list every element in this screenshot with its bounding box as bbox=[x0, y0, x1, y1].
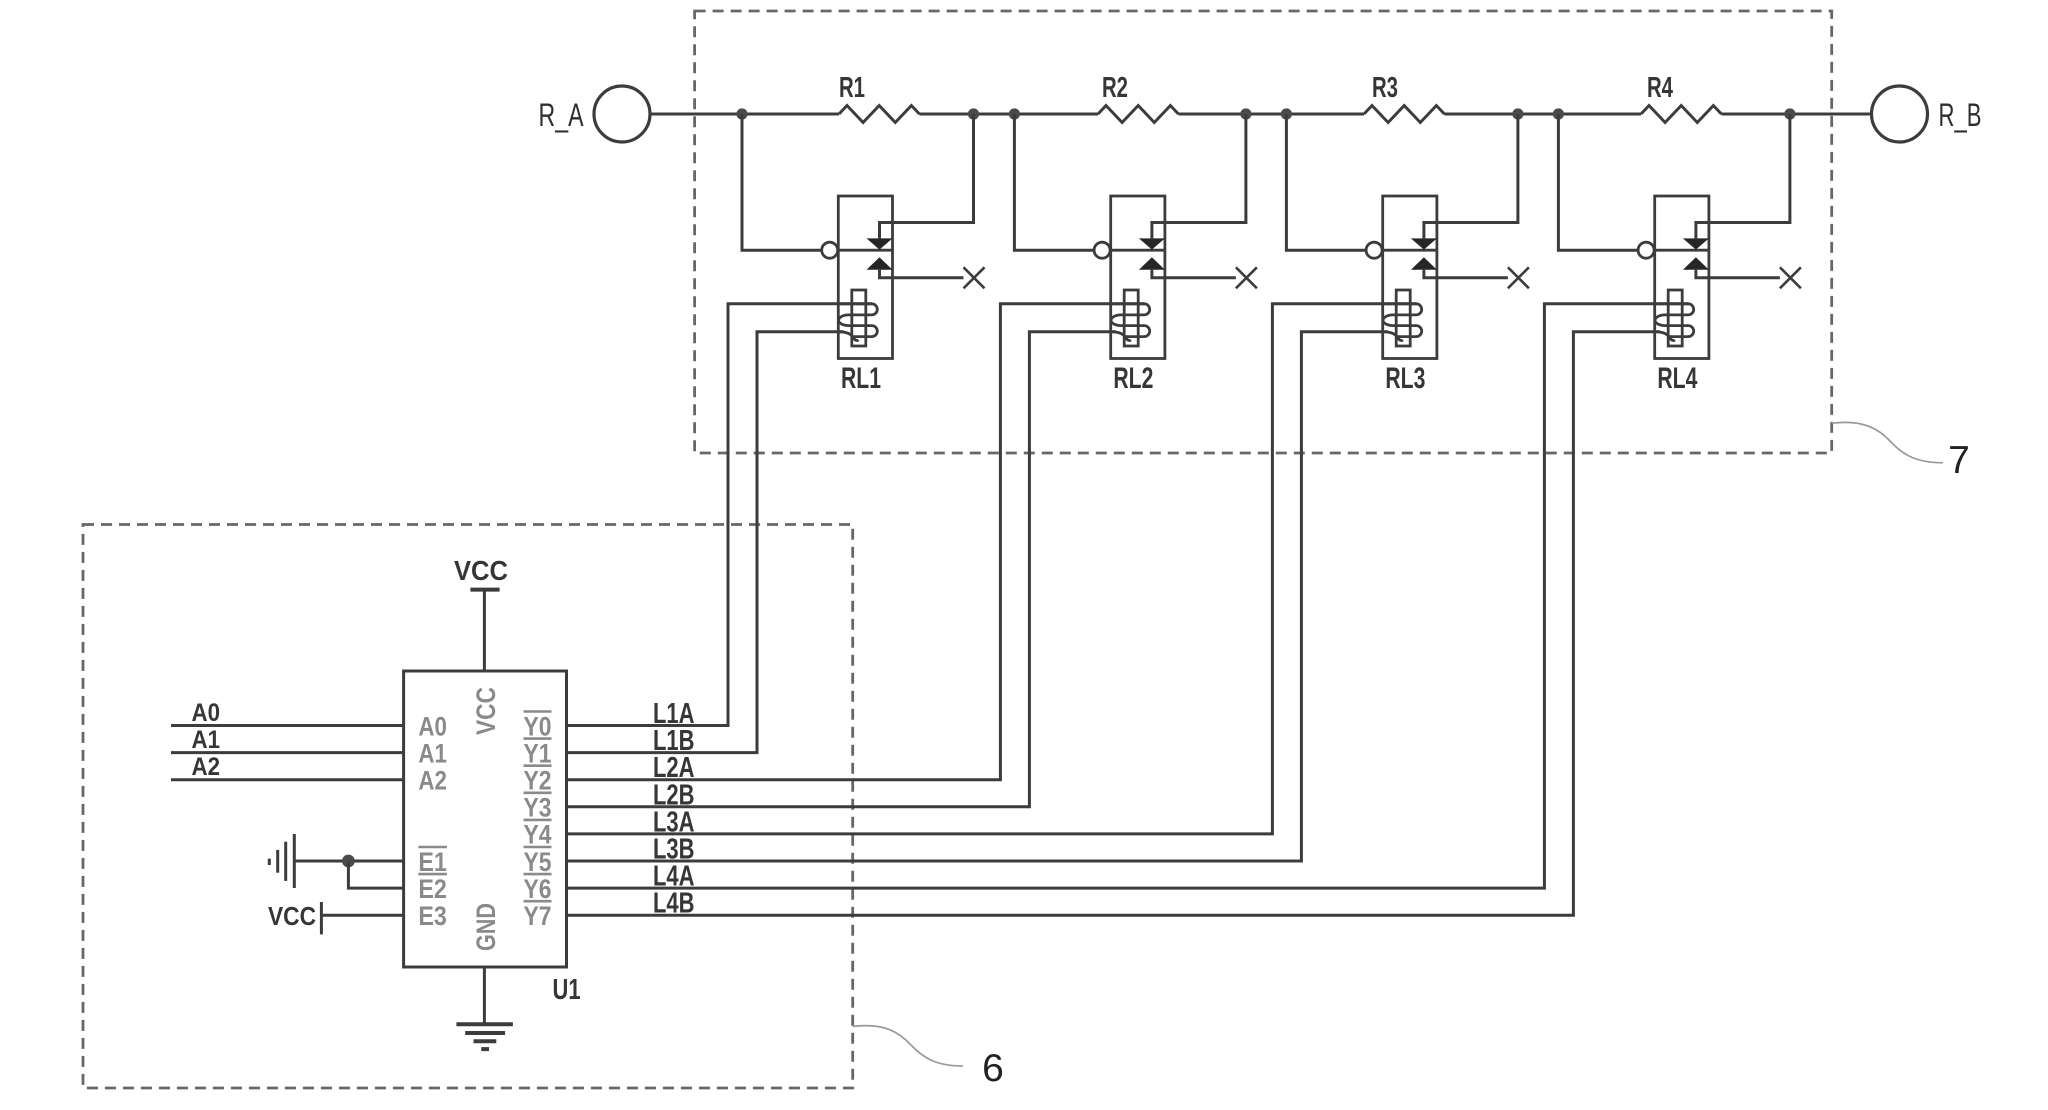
label RL1 bbox=[841, 362, 881, 395]
wire: rail to common contact of RL2 bbox=[1014, 114, 1094, 250]
svg-text:6: 6 bbox=[982, 1047, 1004, 1090]
svg-text:7: 7 bbox=[1948, 439, 1970, 482]
svg-text:R3: R3 bbox=[1372, 72, 1398, 104]
svg-text:R1: R1 bbox=[839, 72, 865, 104]
U1 pin label VCC (rotated) bbox=[471, 687, 501, 735]
coil winding A of RL2 bbox=[1111, 304, 1150, 337]
node: rail junction left of R3 (common of RL3) bbox=[1281, 108, 1292, 119]
NO contact arrow (up) of RL3 bbox=[1411, 257, 1437, 269]
no-connect X of RL2 bbox=[1236, 267, 1257, 288]
label R_A bbox=[539, 97, 584, 133]
svg-text:A0: A0 bbox=[418, 711, 447, 741]
wire: net L1B from U1 Y1 to coil of RL1 bbox=[567, 332, 844, 753]
svg-text:Y1: Y1 bbox=[524, 738, 552, 768]
node: E1/E2 junction bbox=[342, 855, 355, 868]
label RL2 bbox=[1113, 362, 1153, 395]
U1 pin label Y7 (active low) bbox=[524, 901, 552, 931]
relay RL4 body bbox=[1655, 196, 1709, 359]
NC contact arrow (down) of RL1 bbox=[867, 238, 893, 249]
svg-text:Y6: Y6 bbox=[524, 874, 552, 904]
label net L2A bbox=[653, 752, 695, 784]
svg-text:VCC: VCC bbox=[471, 687, 501, 735]
label 7 leader line bbox=[1832, 422, 1943, 462]
U1 pin label A1 bbox=[418, 738, 447, 768]
U1 pin label Y6 (active low) bbox=[524, 874, 552, 904]
svg-text:R_A: R_A bbox=[539, 97, 584, 133]
label net L3B bbox=[653, 834, 695, 866]
svg-text:A1: A1 bbox=[418, 738, 447, 768]
resistor R3 bbox=[1364, 72, 1444, 123]
node: rail junction right of R3 (NC of RL3) bbox=[1512, 108, 1523, 119]
label net L2B bbox=[653, 779, 695, 811]
coil winding A of RL1 bbox=[838, 304, 877, 337]
svg-text:R2: R2 bbox=[1102, 72, 1128, 104]
coil core of RL3 bbox=[1396, 290, 1410, 346]
wire: NO contact of RL2 to no-connect bbox=[1152, 270, 1236, 278]
label RL3 bbox=[1385, 362, 1425, 395]
svg-text:Y2: Y2 bbox=[524, 766, 552, 796]
no-connect X of RL4 bbox=[1780, 267, 1801, 288]
wire: net L4B from U1 Y7 to coil of RL4 bbox=[567, 332, 1660, 915]
coil winding B of RL2 bbox=[1111, 332, 1131, 341]
wire: net L4A from U1 Y6 to coil of RL4 bbox=[567, 304, 1689, 888]
common contact pole circle of RL1 bbox=[822, 242, 838, 258]
svg-text:R4: R4 bbox=[1647, 72, 1673, 104]
label net L1B bbox=[653, 725, 695, 757]
signal ground symbol at E1 bbox=[269, 834, 294, 888]
NO contact arrow (up) of RL1 bbox=[867, 257, 893, 269]
resistor R4 bbox=[1641, 72, 1721, 123]
wire: NO contact of RL4 to no-connect bbox=[1696, 270, 1780, 278]
resistor R2 bbox=[1098, 72, 1178, 123]
wire: common line inside RL3 bbox=[1382, 249, 1437, 252]
svg-text:A2: A2 bbox=[418, 766, 447, 796]
svg-text:L4B: L4B bbox=[653, 888, 695, 920]
U1 pin label A0 bbox=[418, 711, 447, 741]
node: rail junction right of R1 (NC of RL1) bbox=[968, 108, 979, 119]
svg-text:Y7: Y7 bbox=[524, 901, 552, 931]
svg-text:GND: GND bbox=[471, 903, 501, 951]
node: rail junction right of R2 (NC of RL2) bbox=[1240, 108, 1251, 119]
wire: ground to E1 bbox=[294, 860, 403, 863]
wire: input A2 bbox=[171, 778, 404, 781]
VCC power symbol above U1 bbox=[454, 555, 508, 671]
wire: NC contact of RL1 to rail bbox=[880, 114, 974, 238]
ground symbol below U1 bbox=[456, 967, 513, 1049]
coil winding B of RL1 bbox=[838, 332, 858, 341]
svg-text:E2: E2 bbox=[418, 874, 447, 904]
svg-text:VCC: VCC bbox=[268, 901, 316, 931]
coil winding B of RL4 bbox=[1655, 332, 1675, 341]
U1 pin label GND (rotated) bbox=[471, 903, 501, 951]
label input A2 bbox=[192, 753, 221, 781]
relay RL2 body bbox=[1111, 196, 1165, 359]
wire: net L3B from U1 Y5 to coil of RL3 bbox=[567, 332, 1388, 861]
wire: rail to common contact of RL3 bbox=[1286, 114, 1366, 250]
U1 pin label E3 bbox=[418, 901, 447, 931]
coil winding B of RL3 bbox=[1383, 332, 1403, 341]
label input A0 bbox=[192, 699, 221, 727]
label net L1A bbox=[653, 698, 695, 730]
svg-text:A1: A1 bbox=[192, 726, 221, 754]
dashed box 6 (decoder block) bbox=[83, 525, 853, 1089]
node: rail junction left of R2 (common of RL2) bbox=[1009, 108, 1020, 119]
wire: rail to common contact of RL4 bbox=[1558, 114, 1638, 250]
svg-text:E1: E1 bbox=[418, 847, 447, 877]
node: rail junction left of R4 (common of RL4) bbox=[1553, 108, 1564, 119]
coil core of RL1 bbox=[852, 290, 866, 346]
node: rail junction right of R4 (NC of RL4) bbox=[1784, 108, 1795, 119]
wire: input A0 bbox=[171, 724, 404, 727]
NO contact arrow (up) of RL2 bbox=[1139, 257, 1165, 269]
node: rail junction left of R1 (common of RL1) bbox=[736, 108, 747, 119]
svg-text:A2: A2 bbox=[192, 753, 221, 781]
svg-text:E3: E3 bbox=[418, 901, 447, 931]
wire: R1 to R2 bbox=[919, 113, 1098, 116]
wire: junction to E2 bbox=[348, 861, 403, 888]
svg-text:R_B: R_B bbox=[1939, 97, 1982, 133]
wire: NC contact of RL4 to rail bbox=[1696, 114, 1790, 238]
NO contact arrow (up) of RL4 bbox=[1683, 257, 1709, 269]
U1 pin label Y1 (active low) bbox=[524, 738, 552, 768]
svg-text:RL2: RL2 bbox=[1113, 362, 1153, 395]
svg-text:U1: U1 bbox=[553, 974, 581, 1006]
terminal R_B bbox=[1872, 86, 1928, 142]
op IC U1 body (3-to-8 line decoder) bbox=[404, 671, 567, 967]
no-connect X of RL1 bbox=[964, 267, 985, 288]
label R_B bbox=[1939, 97, 1982, 133]
coil core of RL4 bbox=[1668, 290, 1682, 346]
wire: R2 to R3 bbox=[1178, 113, 1364, 116]
wire: input A1 bbox=[171, 751, 404, 754]
U1 pin label Y2 (active low) bbox=[524, 766, 552, 796]
common contact pole circle of RL3 bbox=[1366, 242, 1382, 258]
svg-text:RL3: RL3 bbox=[1385, 362, 1425, 395]
label 7 bbox=[1948, 439, 1970, 482]
svg-text:RL1: RL1 bbox=[841, 362, 881, 395]
relay RL3 body bbox=[1383, 196, 1437, 359]
no-connect X of RL3 bbox=[1508, 267, 1529, 288]
wire: R_A to R1 bbox=[650, 113, 839, 116]
svg-text:VCC: VCC bbox=[454, 555, 508, 586]
VCC terminal at E3 bbox=[268, 901, 321, 934]
label 6 bbox=[982, 1047, 1004, 1090]
relay RL1 body bbox=[838, 196, 892, 359]
coil winding A of RL3 bbox=[1383, 304, 1422, 337]
wire: net L3A from U1 Y4 to coil of RL3 bbox=[567, 304, 1417, 834]
U1 pin label Y4 (active low) bbox=[524, 820, 552, 850]
resistor R1 bbox=[839, 72, 919, 123]
svg-text:A0: A0 bbox=[192, 699, 221, 727]
label U1 bbox=[553, 974, 581, 1006]
wire: common line inside RL4 bbox=[1654, 249, 1709, 252]
NC contact arrow (down) of RL4 bbox=[1683, 238, 1709, 249]
wire: R3 to R4 bbox=[1444, 113, 1641, 116]
wire: NO contact of RL1 to no-connect bbox=[880, 270, 964, 278]
label net L4B bbox=[653, 888, 695, 920]
svg-text:RL4: RL4 bbox=[1657, 362, 1697, 395]
wire: rail to common contact of RL1 bbox=[742, 114, 822, 250]
U1 pin label Y3 (active low) bbox=[524, 793, 552, 823]
svg-text:Y0: Y0 bbox=[524, 711, 552, 741]
U1 pin label Y5 (active low) bbox=[524, 847, 552, 877]
wire: NC contact of RL3 to rail bbox=[1424, 114, 1518, 238]
svg-text:Y5: Y5 bbox=[524, 847, 552, 877]
NC contact arrow (down) of RL2 bbox=[1139, 238, 1165, 249]
label net L4A bbox=[653, 861, 695, 893]
wire: VCC terminal to E3 bbox=[321, 914, 403, 917]
common contact pole circle of RL4 bbox=[1638, 242, 1654, 258]
common contact pole circle of RL2 bbox=[1094, 242, 1110, 258]
U1 pin label A2 bbox=[418, 766, 447, 796]
label net L3A bbox=[653, 806, 695, 838]
wire: common line inside RL2 bbox=[1110, 249, 1165, 252]
wire: NC contact of RL2 to rail bbox=[1152, 114, 1246, 238]
wire: net L1A from U1 Y0 to coil of RL1 bbox=[567, 304, 872, 726]
svg-text:Y4: Y4 bbox=[524, 820, 552, 850]
terminal R_A bbox=[594, 86, 650, 142]
dashed box 7 (relay network block) bbox=[695, 11, 1832, 453]
U1 pin label E2 bbox=[418, 874, 447, 904]
wire: R4 to R_B bbox=[1721, 113, 1871, 116]
NC contact arrow (down) of RL3 bbox=[1411, 238, 1437, 249]
wire: net L2B from U1 Y3 to coil of RL2 bbox=[567, 332, 1116, 807]
label 6 leader line bbox=[853, 1026, 963, 1066]
svg-text:Y3: Y3 bbox=[524, 793, 552, 823]
wire: common line inside RL1 bbox=[838, 249, 893, 252]
label input A1 bbox=[192, 726, 221, 754]
U1 pin label Y0 (active low) bbox=[524, 711, 552, 741]
U1 pin label E1 bbox=[418, 847, 447, 877]
coil winding A of RL4 bbox=[1655, 304, 1694, 337]
label RL4 bbox=[1657, 362, 1697, 395]
wire: NO contact of RL3 to no-connect bbox=[1424, 270, 1508, 278]
wire: net L2A from U1 Y2 to coil of RL2 bbox=[567, 304, 1145, 780]
coil core of RL2 bbox=[1124, 290, 1138, 346]
